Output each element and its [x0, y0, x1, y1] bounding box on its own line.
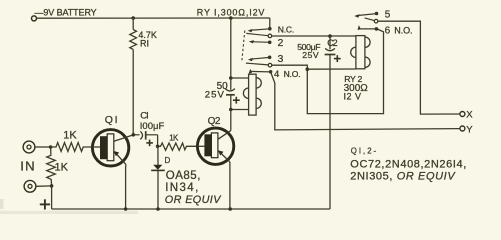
contact blade 2	[251, 41, 270, 44]
wire C2 top lead	[329, 36, 331, 49]
capacitor C1 plus	[146, 140, 153, 147]
wire IN bottom to node	[36, 185, 52, 187]
svg-text:IN: IN	[20, 158, 36, 173]
wire Q2 collector riser	[230, 110, 232, 131]
node Q2 emitter rail	[228, 207, 232, 211]
relay contact 2 dot	[268, 41, 272, 45]
svg-text:Q2: Q2	[208, 116, 221, 127]
relay coil RY2	[351, 36, 370, 69]
capacitor 50uF plus	[233, 97, 240, 104]
resistor 1K series	[51, 143, 92, 152]
arrow blade 2	[249, 40, 254, 43]
contact blade 4	[251, 70, 270, 73]
node Q1 emitter rail	[124, 207, 128, 211]
capacitor 50uF plates	[225, 89, 235, 95]
battery plus mark	[40, 199, 50, 209]
svg-text:1K: 1K	[55, 161, 69, 173]
contact pole1	[268, 34, 272, 38]
svg-text:4: 4	[274, 69, 279, 80]
relay contact 3 dot	[268, 56, 272, 60]
svg-text:OC72,2N408,2N26I4,: OC72,2N408,2N26I4,	[350, 159, 467, 171]
svg-text:N.O.: N.O.	[394, 25, 412, 35]
relay contact 6 dot	[375, 27, 379, 31]
svg-text:OA85,: OA85,	[166, 170, 201, 182]
node Q1 collector junction	[132, 133, 136, 137]
contact pole3 blade	[365, 18, 375, 21]
transistor Q2	[197, 128, 234, 164]
contact pole2 blade	[246, 63, 268, 65]
wire top rail	[37, 17, 270, 19]
wire IN top to node	[35, 146, 51, 148]
wire RY1 coil top lead	[231, 77, 249, 79]
terminal X	[460, 112, 465, 117]
capacitor C2 plus	[334, 55, 341, 62]
node rail-RY1	[229, 16, 233, 20]
wire Q2 emitter drop	[229, 162, 231, 209]
wire RY1 branch	[230, 18, 232, 78]
svg-text:I2 V: I2 V	[344, 92, 362, 102]
arrow blade 6	[358, 25, 361, 30]
arrow blade NC1	[248, 29, 253, 32]
svg-text:1K: 1K	[63, 130, 77, 142]
relay contact NC1 dot	[268, 27, 272, 31]
wire RY2 bottom lead	[307, 68, 356, 70]
svg-text:RY I,300Ω,I2V: RY I,300Ω,I2V	[197, 7, 265, 17]
svg-text:6: 6	[385, 26, 391, 37]
svg-text:CI: CI	[140, 111, 148, 122]
svg-text:C2: C2	[327, 38, 337, 48]
contact blade 5	[356, 14, 376, 16]
contact blade NC1	[250, 29, 270, 31]
resistor R1	[130, 18, 137, 135]
svg-text:QI,2-: QI,2-	[351, 146, 378, 155]
node Q1 base net	[49, 145, 53, 149]
wire contact4 to Y	[271, 72, 460, 130]
node ground corner	[50, 184, 54, 188]
wire C1 to base node	[157, 135, 159, 147]
svg-text:OR EQUIV: OR EQUIV	[165, 194, 222, 206]
contact blade 6	[360, 28, 377, 30]
node cap50 top	[229, 76, 233, 80]
node Q2 base net	[156, 145, 160, 149]
svg-text:N.O.: N.O.	[284, 69, 301, 79]
svg-text:—9V BATTERY: —9V BATTERY	[35, 7, 97, 17]
terminal Y	[460, 126, 465, 131]
terminal IN top	[23, 141, 35, 153]
svg-text:X: X	[466, 110, 473, 121]
resistor 1K Q2 base	[158, 143, 198, 150]
wire cap50 bottom lead	[230, 95, 232, 110]
relay contact 5 dot	[375, 12, 379, 16]
contact pole1 blade	[246, 33, 268, 35]
svg-text:D: D	[165, 156, 171, 165]
svg-text:IN34,: IN34,	[165, 182, 200, 194]
node rail-R1	[131, 16, 135, 20]
linkage dashed RY1	[242, 31, 245, 62]
wire pole2 net	[272, 29, 384, 114]
scan smudge bottom-left	[0, 211, 138, 214]
contact pole2	[268, 63, 272, 67]
wire ground drop	[51, 186, 53, 209]
wire pole1 to RY2 top	[272, 35, 356, 37]
svg-text:2NI305, OR EQUIV: 2NI305, OR EQUIV	[350, 171, 456, 183]
wire pole3 to X	[378, 21, 460, 114]
contact blade 3	[250, 57, 270, 59]
contact pole3	[374, 19, 378, 23]
diode D	[151, 146, 165, 209]
svg-text:QI: QI	[105, 114, 119, 126]
transistor Q1	[92, 130, 133, 166]
capacitor C2 plates	[325, 48, 336, 54]
svg-text:5: 5	[385, 10, 391, 21]
svg-text:2: 2	[278, 37, 284, 49]
node RY2 bottom	[306, 67, 310, 71]
svg-text:25V: 25V	[302, 50, 319, 60]
node C2 top	[328, 34, 332, 38]
svg-text:RI: RI	[140, 39, 149, 49]
svg-text:I00μF: I00μF	[140, 121, 165, 132]
wire Q1 emitter drop	[125, 165, 127, 209]
resistor 1K shunt	[47, 147, 56, 186]
arrow blade 5	[354, 14, 359, 17]
node diode rail	[156, 207, 160, 211]
svg-text:Y: Y	[466, 125, 473, 136]
svg-text:25V: 25V	[205, 90, 225, 101]
battery terminal	[32, 16, 37, 21]
wire contact1 drop	[269, 18, 271, 28]
relay coil RY1	[243, 74, 261, 115]
arrow blade 3	[248, 58, 253, 61]
wire C2 bottom lead	[329, 55, 331, 210]
wire cap50 top lead	[230, 78, 232, 90]
wire RY1 coil bottom lead	[231, 109, 249, 111]
wire bottom rail	[52, 208, 330, 210]
svg-text:3: 3	[278, 53, 284, 65]
capacitor C1	[135, 131, 158, 140]
svg-text:N.C.: N.C.	[278, 25, 294, 35]
arrow blade 4	[249, 69, 252, 74]
relay contact 4 dot	[269, 70, 273, 74]
terminal IN bottom	[24, 180, 36, 192]
node coil RY1 bottom	[229, 108, 233, 112]
